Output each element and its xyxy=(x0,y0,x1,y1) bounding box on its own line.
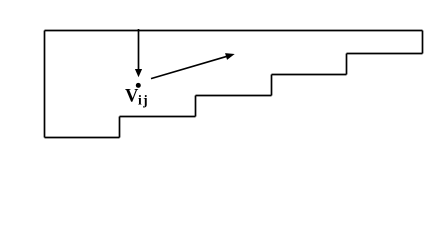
staircase polygon top edge xyxy=(45,30,423,32)
vertical arrow head xyxy=(135,69,142,77)
staircase polygon left edge xyxy=(44,31,46,138)
slanted arrow head xyxy=(225,53,235,60)
staircase polygon bottom edge xyxy=(45,137,120,139)
step 2 riser xyxy=(271,75,273,96)
step 4 tread xyxy=(120,116,196,118)
slanted arrow shaft xyxy=(151,56,227,78)
step 4 riser xyxy=(119,117,121,138)
step 2 tread xyxy=(272,74,347,76)
step 3 tread xyxy=(196,95,272,97)
svg-text:V: V xyxy=(125,87,139,107)
step 3 riser xyxy=(195,96,197,117)
svg-text:ij: ij xyxy=(138,93,149,108)
vertical arrow shaft xyxy=(138,29,140,70)
step 1 tread xyxy=(347,53,423,55)
step 1 riser xyxy=(346,54,348,75)
vertex dot xyxy=(136,83,141,88)
staircase polygon right edge xyxy=(422,31,424,54)
